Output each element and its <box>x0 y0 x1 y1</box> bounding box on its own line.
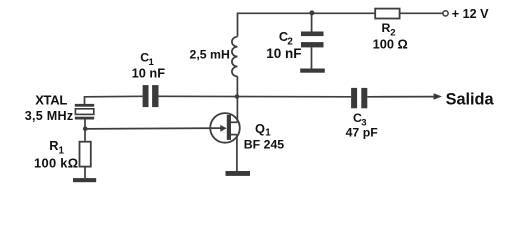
svg-text:Q: Q <box>255 121 265 136</box>
gate arrow <box>220 125 226 132</box>
drain jog <box>231 121 238 123</box>
svg-text:100 kΩ: 100 kΩ <box>34 155 78 170</box>
capacitor C3 <box>351 88 367 108</box>
wire source vertical <box>236 135 238 171</box>
resistor R2 <box>375 9 399 19</box>
capacitor C2 <box>301 32 324 48</box>
svg-text:10 nF: 10 nF <box>266 46 301 61</box>
ground under R1 <box>73 178 96 182</box>
wire top rail from inductor elbow to +12V terminal <box>238 13 443 36</box>
ground under C2 <box>300 69 325 73</box>
channel bar <box>227 115 231 140</box>
wire gate line <box>85 127 221 130</box>
svg-text:100 Ω: 100 Ω <box>373 37 408 52</box>
+12V terminal circle <box>443 11 448 16</box>
wire drain vertical <box>236 97 238 123</box>
svg-text:3,5 MHz: 3,5 MHz <box>25 109 74 123</box>
node B: junction dot on rail at C2 <box>309 10 314 15</box>
crystal XTAL 3,5 MHz <box>75 104 94 129</box>
svg-text:BF 245: BF 245 <box>244 138 284 152</box>
svg-text:10 nF: 10 nF <box>132 66 166 81</box>
wire output line with arrow <box>367 96 434 98</box>
node C: junction dot crystal/R1/gate <box>83 126 88 131</box>
node A: junction dot drain/inductor/output <box>235 94 240 99</box>
svg-text:R: R <box>382 21 391 35</box>
resistor R1 <box>84 129 86 141</box>
svg-text:47 pF: 47 pF <box>346 125 379 139</box>
source jog <box>231 134 237 136</box>
svg-text:R: R <box>49 138 58 153</box>
wire C2 lead from rail <box>311 13 313 32</box>
transistor Q1 BF245 JFET <box>210 97 240 172</box>
wire main line C1 to C3 <box>159 95 352 98</box>
wire main line left segment (crystal elbow to C1) <box>85 96 143 104</box>
svg-text:+ 12 V: + 12 V <box>452 7 489 21</box>
svg-text:Salida: Salida <box>446 90 495 108</box>
wire C2 to ground <box>311 47 313 68</box>
inductor L1 2,5 mH <box>232 37 238 97</box>
capacitor C1 <box>143 85 159 107</box>
svg-text:XTAL: XTAL <box>35 93 67 108</box>
svg-text:2,5 mH: 2,5 mH <box>190 48 230 62</box>
ground under Q1 <box>226 171 251 176</box>
